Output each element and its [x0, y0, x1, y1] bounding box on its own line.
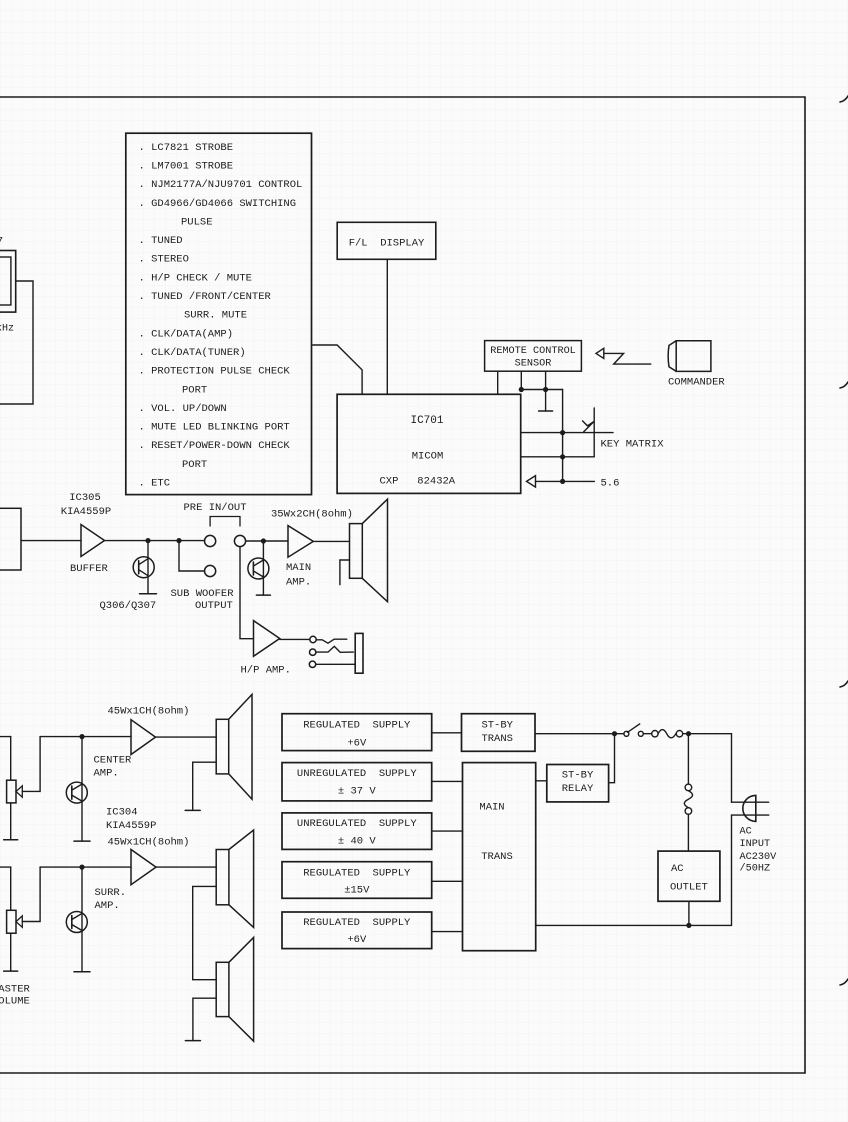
regulated supply +6V box	[282, 714, 432, 751]
jack pre in	[234, 535, 245, 546]
headphone jack body	[355, 633, 363, 673]
commander body	[668, 341, 711, 372]
svg-text:BUFFER: BUFFER	[70, 563, 109, 575]
junction	[145, 538, 150, 543]
svg-text:F/L DISPLAY: F/L DISPLAY	[349, 238, 425, 250]
svg-text:ST-BY: ST-BY	[481, 720, 513, 732]
svg-text:PORT: PORT	[182, 384, 207, 396]
wire key matrix bus vertical	[562, 390, 564, 482]
svg-text:. CLK/DATA(TUNER): . CLK/DATA(TUNER)	[139, 347, 246, 359]
pot center level	[7, 780, 16, 803]
svg-text:. PROTECTION PULSE CHECK: . PROTECTION PULSE CHECK	[139, 366, 291, 378]
ground main mute	[256, 594, 270, 596]
wire hp amp to jack	[280, 638, 310, 640]
svg-text:AMP.: AMP.	[286, 576, 311, 588]
wire down to outlet link	[687, 734, 689, 784]
wire surr pot wiper up	[22, 867, 40, 921]
svg-text:Q306/Q307: Q306/Q307	[100, 600, 157, 612]
wire key matrix column	[593, 408, 595, 457]
svg-text:7: 7	[0, 237, 3, 249]
wire to main mute transistor	[262, 541, 264, 595]
svg-text:VOLUME: VOLUME	[0, 996, 30, 1008]
svg-text:± 40 V: ± 40 V	[338, 836, 377, 848]
svg-text:AC: AC	[740, 827, 752, 838]
AC outlet box	[658, 851, 720, 901]
wire st-by trans to switch	[535, 733, 624, 735]
svg-text:kHz: kHz	[0, 323, 14, 335]
wire surr pot to ground	[10, 933, 12, 971]
main trans box	[463, 763, 536, 951]
F/L display box	[337, 222, 436, 259]
jack pre out	[205, 535, 216, 546]
svg-text:SENSOR: SENSOR	[515, 358, 552, 369]
wire center pot to ground	[10, 803, 12, 840]
fuse terminal right	[676, 731, 682, 737]
plug prong top	[732, 801, 769, 803]
junction	[261, 538, 266, 543]
svg-text:. TUNED /FRONT/CENTER: . TUNED /FRONT/CENTER	[139, 291, 272, 303]
svg-text:TRANS: TRANS	[481, 733, 513, 745]
wire sensor bus	[521, 389, 562, 391]
wire supply4 to main trans	[432, 880, 463, 882]
ground surr pot	[4, 970, 18, 972]
wire supply5 to main trans	[432, 931, 463, 933]
svg-text:IC305: IC305	[69, 492, 101, 504]
wire supply2 to main trans	[432, 780, 463, 782]
st-by relay box	[547, 765, 609, 802]
hp jack switch 2	[316, 646, 353, 652]
wire surr amp to speaker A	[156, 866, 216, 868]
open arrow to sensor	[596, 348, 604, 358]
hp jack contact 1	[310, 636, 316, 642]
svg-text:/50HZ: /50HZ	[740, 863, 771, 875]
unregulated supply 37V box	[282, 763, 432, 801]
svg-text:REGULATED SUPPLY: REGULATED SUPPLY	[303, 917, 411, 929]
wire AC line to plug	[731, 734, 733, 803]
wire to surr mute transistor	[81, 867, 83, 972]
wire surr input	[0, 866, 11, 868]
svg-text:ST-BY: ST-BY	[562, 769, 594, 781]
ground surr speakers	[185, 1040, 200, 1042]
wire to Q306 mute transistor	[147, 541, 149, 594]
wire supply1 to st-by trans	[432, 732, 462, 734]
wire 5.6	[536, 480, 595, 482]
wire speaker A return to speaker B	[193, 886, 217, 979]
link element	[684, 791, 692, 808]
hp jack contact 3	[309, 661, 315, 667]
junction switch node	[612, 731, 617, 736]
junction	[560, 430, 565, 435]
page border top	[0, 96, 805, 98]
svg-text:AMP.: AMP.	[95, 900, 120, 912]
wire AC outlet to return	[688, 901, 690, 925]
regulated supply 15V box	[282, 862, 432, 899]
page border bottom	[0, 1072, 805, 1074]
svg-text:UNREGULATED SUPPLY: UNREGULATED SUPPLY	[297, 818, 417, 830]
svg-text:COMMANDER: COMMANDER	[668, 377, 725, 389]
svg-text:RELAY: RELAY	[562, 783, 594, 795]
junction	[79, 865, 84, 870]
svg-text:AMP.: AMP.	[94, 768, 119, 780]
svg-text:MAIN: MAIN	[286, 562, 311, 574]
wire plug neutral down	[731, 815, 733, 925]
svg-text:KEY MATRIX: KEY MATRIX	[601, 438, 665, 450]
junction	[560, 479, 565, 484]
transistor main mute	[248, 558, 269, 579]
svg-text:. CLK/DATA(AMP): . CLK/DATA(AMP)	[139, 328, 234, 340]
micom port function list box	[126, 133, 312, 494]
op-amp center amp	[131, 720, 156, 755]
svg-text:MICOM: MICOM	[412, 451, 444, 463]
svg-text:SUB WOOFER: SUB WOOFER	[171, 588, 235, 600]
op-amp main amp	[288, 526, 313, 558]
fuse element	[658, 730, 676, 738]
switch lever	[628, 724, 640, 732]
svg-text:INPUT: INPUT	[740, 839, 771, 850]
op-amp surround amp	[131, 850, 156, 885]
svg-text:TRANS: TRANS	[481, 851, 513, 863]
junction	[560, 454, 565, 459]
wire preamp to buffer	[21, 540, 81, 542]
junction	[519, 387, 524, 392]
link terminal top	[685, 784, 692, 791]
AC plug body	[743, 795, 756, 821]
wire pre-in jack to main amp	[246, 540, 288, 542]
wire sensor pin 3 to ground	[545, 371, 547, 411]
wire F/L display to IC701	[386, 259, 388, 394]
svg-text:UNREGULATED SUPPLY: UNREGULATED SUPPLY	[297, 768, 417, 780]
wire into center volume pot	[10, 737, 12, 781]
svg-text:+6V: +6V	[347, 934, 367, 946]
hp jack switch 1	[316, 639, 347, 643]
bracket pre in/out	[210, 517, 240, 527]
wire key matrix row 1	[521, 432, 613, 434]
transistor center mute	[66, 782, 87, 803]
tuner block outer box (cut off)	[0, 251, 16, 313]
svg-text:. STEREO: . STEREO	[139, 254, 189, 266]
svg-text:. VOL. UP/DOWN: . VOL. UP/DOWN	[139, 403, 227, 415]
svg-text:AC230V: AC230V	[740, 852, 778, 863]
svg-text:PULSE: PULSE	[181, 216, 213, 228]
wire pre-in to headphone amp	[240, 547, 254, 639]
wire speaker B return	[193, 998, 216, 1040]
junction	[176, 538, 181, 543]
svg-text:OUTPUT: OUTPUT	[195, 600, 233, 612]
wire fuse to AC line	[683, 733, 732, 735]
svg-text:. RESET/POWER-DOWN CHECK: . RESET/POWER-DOWN CHECK	[139, 440, 291, 452]
remote signal zigzag	[604, 353, 651, 364]
svg-text:KIA4559P: KIA4559P	[61, 506, 111, 518]
speaker center 45W	[216, 694, 252, 799]
svg-text:±15V: ±15V	[344, 885, 370, 897]
ground surr mute	[74, 971, 90, 973]
wire from tuner block	[0, 281, 33, 404]
svg-text:CXP 82432A: CXP 82432A	[380, 476, 456, 488]
edge mark 3	[840, 681, 848, 687]
wire main trans to relay	[536, 780, 547, 782]
transistor surr mute	[66, 912, 87, 933]
wire main amp to speaker	[313, 540, 349, 542]
ground center mute	[74, 840, 90, 842]
wire list box to IC701	[313, 345, 362, 394]
svg-text:OUTLET: OUTLET	[670, 882, 708, 894]
svg-text:REGULATED SUPPLY: REGULATED SUPPLY	[303, 868, 411, 880]
wire center speaker return	[193, 762, 217, 810]
switch contact right	[638, 731, 643, 736]
speaker surround A 45W	[216, 830, 253, 927]
svg-text:45Wx1CH(8ohm): 45Wx1CH(8ohm)	[108, 836, 190, 848]
hp jack contact 2	[310, 649, 316, 655]
wire to center mute transistor	[81, 737, 83, 842]
unregulated supply 40V box	[282, 813, 432, 850]
ground sensor	[539, 410, 553, 412]
wire to surr amp	[40, 866, 131, 868]
edge mark 4	[840, 979, 848, 985]
svg-text:± 37 V: ± 37 V	[338, 786, 377, 798]
svg-text:. ETC: . ETC	[139, 478, 171, 490]
switch contact left	[624, 731, 629, 736]
svg-text:KIA4559P: KIA4559P	[106, 820, 156, 832]
junction AC outlet branch	[686, 731, 691, 736]
speaker surround B 45W	[216, 938, 253, 1042]
page border right	[804, 97, 806, 1073]
op-amp H/P amp	[254, 621, 280, 657]
ground center speaker	[185, 809, 200, 811]
junction return	[686, 923, 691, 928]
svg-text:MAIN: MAIN	[479, 801, 504, 813]
wire buffer to pre-out jack	[105, 540, 205, 542]
link terminal bottom	[685, 808, 692, 815]
junction	[79, 734, 84, 739]
open arrow into IC701	[527, 476, 536, 487]
svg-text:. LC7821 STROBE: . LC7821 STROBE	[139, 142, 234, 154]
svg-text:. LM7001 STROBE: . LM7001 STROBE	[139, 160, 234, 172]
svg-text:REGULATED SUPPLY: REGULATED SUPPLY	[303, 720, 411, 732]
svg-text:H/P AMP.: H/P AMP.	[241, 664, 291, 676]
wire sensor pin 2	[520, 371, 522, 389]
tuner block inner box (cut off)	[0, 257, 11, 305]
wire key matrix row 2	[521, 456, 594, 458]
svg-text:REMOTE CONTROL: REMOTE CONTROL	[490, 346, 576, 357]
svg-text:. MUTE LED BLINKING PORT: . MUTE LED BLINKING PORT	[139, 422, 290, 434]
pot wiper arrow center	[16, 786, 22, 797]
speaker main 35W	[350, 499, 388, 602]
svg-text:+6V: +6V	[347, 737, 367, 749]
svg-text:AC: AC	[671, 863, 684, 875]
wire supply3 to main trans	[432, 830, 463, 832]
svg-text:PRE IN/OUT: PRE IN/OUT	[184, 502, 247, 514]
svg-text:IC304: IC304	[106, 806, 138, 818]
wire center input	[0, 736, 11, 738]
ground center pot	[4, 839, 18, 841]
key switch symbol	[583, 421, 595, 432]
svg-text:MASTER: MASTER	[0, 983, 31, 995]
svg-text:. H/P CHECK / MUTE: . H/P CHECK / MUTE	[139, 272, 252, 284]
wire speaker return	[340, 560, 350, 585]
svg-text:SURR.: SURR.	[95, 887, 127, 899]
regulated supply +6V lower box	[282, 912, 432, 949]
wire center amp to speaker	[156, 736, 217, 738]
wire return to main trans	[536, 924, 732, 926]
wire center pot wiper up	[22, 737, 40, 792]
jack sub woofer output	[205, 565, 216, 576]
svg-text:IC701: IC701	[410, 415, 443, 427]
svg-text:35Wx2CH(8ohm): 35Wx2CH(8ohm)	[271, 508, 353, 520]
transistor Q306/Q307 mute	[133, 557, 154, 578]
remote control sensor box	[485, 341, 582, 372]
junction	[543, 387, 548, 392]
pot surr level	[7, 910, 16, 933]
svg-text:CENTER: CENTER	[94, 754, 133, 766]
wire sensor to IC701 pin	[497, 371, 499, 394]
micom IC701 box	[337, 394, 521, 493]
fuse terminal left	[652, 731, 658, 737]
svg-text:. NJM2177A/NJU9701 CONTROL: . NJM2177A/NJU9701 CONTROL	[139, 179, 303, 191]
op-amp buffer IC305	[81, 525, 105, 557]
st-by trans box	[462, 714, 536, 752]
svg-text:PORT: PORT	[182, 459, 207, 471]
pot wiper arrow surr	[16, 916, 22, 927]
plug prong bottom	[732, 814, 769, 816]
edge mark 2	[840, 382, 848, 388]
svg-text:. GD4966/GD4066 SWITCHING: . GD4966/GD4066 SWITCHING	[139, 198, 297, 210]
wire to sub woofer jack	[179, 541, 204, 571]
wire link to AC outlet	[687, 814, 689, 851]
svg-text:SURR. MUTE: SURR. MUTE	[184, 310, 247, 322]
preamp block (cut off)	[0, 508, 21, 570]
wire into surr volume pot	[10, 867, 12, 910]
ground Q306	[140, 593, 157, 595]
svg-text:. TUNED: . TUNED	[139, 235, 183, 247]
hp jack wire 3	[316, 663, 355, 665]
edge mark 1	[840, 96, 848, 102]
svg-text:45Wx1CH(8ohm): 45Wx1CH(8ohm)	[108, 706, 190, 718]
svg-text:5.6: 5.6	[601, 477, 620, 489]
wire to center amp	[40, 736, 131, 738]
wire switch to fuse	[643, 733, 651, 735]
wire relay to power switch node	[609, 734, 615, 783]
